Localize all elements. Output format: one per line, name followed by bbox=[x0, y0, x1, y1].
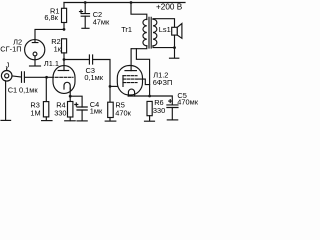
value label 470к bbox=[115, 109, 131, 118]
node C3-R5-grid junction bbox=[109, 85, 112, 88]
value label C5 plus bbox=[169, 100, 172, 103]
value label C2 bbox=[93, 10, 102, 19]
wire R1 bottom lead bbox=[63, 23, 65, 30]
wire R3 bottom lead bbox=[45, 117, 47, 120]
ground R4 bbox=[65, 120, 76, 122]
wire secondary bottom to speaker bbox=[153, 46, 175, 48]
value label СГ-1П bbox=[0, 44, 21, 53]
wire C2 bottom lead bbox=[84, 16, 86, 28]
svg-text:1к: 1к bbox=[54, 45, 62, 54]
value label 330 R4 bbox=[54, 109, 66, 118]
transformer Tr1 primary bbox=[143, 19, 147, 46]
ground Л2 bbox=[30, 65, 41, 67]
value label R1 bbox=[50, 6, 59, 15]
tube Л1.1 envelope bbox=[53, 66, 75, 94]
value label R4 bbox=[56, 100, 65, 109]
ground R3 bbox=[42, 120, 52, 122]
value label 1M bbox=[30, 109, 40, 118]
node rail-C2 junction bbox=[84, 1, 87, 4]
value label 470мк bbox=[177, 98, 198, 107]
tube Л2 anode bbox=[32, 40, 38, 43]
wire Л1.2 anode lead bbox=[130, 49, 132, 71]
node input-R3 junction bbox=[45, 76, 48, 79]
svg-text:Л1.1: Л1.1 bbox=[44, 59, 59, 68]
value label J bbox=[6, 61, 10, 70]
tube Л1.2 grid g1 bbox=[123, 78, 137, 80]
wire ground lead speaker bbox=[174, 48, 176, 58]
value label C3 bbox=[86, 66, 95, 75]
svg-text:1M: 1M bbox=[30, 109, 40, 118]
svg-text:C1: C1 bbox=[8, 85, 17, 94]
wire speaker bottom lead bbox=[174, 35, 176, 48]
wire grid lead Л1.2 bbox=[110, 85, 123, 87]
svg-text:+200 В: +200 В bbox=[156, 3, 183, 12]
value label C4 bbox=[90, 100, 99, 109]
value label 6ФЗП bbox=[153, 78, 173, 87]
wire +200V top rail bbox=[64, 2, 185, 4]
svg-text:1мк: 1мк bbox=[90, 106, 103, 115]
node R2-anode-C3 junction bbox=[63, 58, 66, 61]
wire R4 top lead bbox=[69, 96, 71, 101]
value label 6,8к bbox=[44, 13, 58, 22]
value label C1 bbox=[8, 85, 17, 94]
value label C4 plus bbox=[75, 103, 78, 106]
tube Л1.1 grid bbox=[56, 76, 74, 78]
node R1-R2-Л2 junction bbox=[63, 28, 66, 31]
wire C5 bottom lead bbox=[171, 108, 173, 120]
resistor R3 bbox=[43, 102, 48, 117]
wire R4 bottom lead bbox=[69, 117, 71, 121]
tube Л2 envelope bbox=[25, 40, 45, 60]
transformer Tr1 core bbox=[149, 17, 151, 48]
value label Л1.1 bbox=[44, 59, 59, 68]
wire cathode bus bbox=[128, 96, 172, 105]
capacitor C3 bbox=[89, 55, 92, 64]
wire R1 top lead bbox=[63, 3, 65, 9]
capacitor C5 bbox=[167, 105, 178, 108]
tube Л2 cathode bbox=[33, 52, 37, 56]
wire cathode to C4 bbox=[70, 96, 82, 107]
svg-text:6,8к: 6,8к bbox=[44, 13, 58, 22]
connector J jack bbox=[1, 68, 12, 81]
tube Л1.2 cathode bbox=[128, 89, 134, 96]
svg-text:Ls1: Ls1 bbox=[159, 25, 171, 34]
resistor R1 bbox=[62, 8, 67, 22]
ground C4 bbox=[77, 120, 87, 122]
wire R2 bottom lead bbox=[63, 53, 65, 60]
wire rail to primary top bbox=[131, 3, 147, 20]
resistor R2 bbox=[62, 39, 67, 53]
tube Л1.2 grid g3 bbox=[123, 82, 137, 84]
wire secondary top to speaker bbox=[153, 19, 175, 28]
svg-text:47мк: 47мк bbox=[93, 18, 110, 27]
net label +200 В bbox=[156, 3, 183, 12]
tube Л1.2 envelope bbox=[117, 66, 142, 96]
resistor R5 bbox=[108, 102, 114, 117]
wire R5 bottom lead bbox=[109, 118, 111, 121]
node cathode-R6 junction bbox=[148, 95, 151, 98]
wire R3 top lead bbox=[45, 77, 47, 101]
value label 1к bbox=[54, 45, 62, 54]
wire C4 bottom lead bbox=[81, 110, 83, 121]
transformer Tr1 secondary bbox=[153, 19, 157, 46]
value label 0,1мк C3 bbox=[84, 73, 103, 82]
wire junction to Л2 anode bbox=[35, 29, 64, 39]
svg-text:470к: 470к bbox=[115, 109, 131, 118]
ground R6 bbox=[145, 120, 155, 122]
resistor R4 bbox=[68, 102, 73, 118]
value label Ls1 bbox=[159, 25, 171, 34]
value label Л1.2 bbox=[153, 70, 168, 79]
value label R3 bbox=[30, 100, 39, 109]
ground speaker bbox=[170, 57, 179, 59]
svg-text:СГ-1П: СГ-1П bbox=[0, 44, 21, 53]
wire C1 to grid Л1.1 bbox=[25, 76, 54, 78]
node rail-transformer junction bbox=[130, 1, 133, 4]
ground C2 bbox=[82, 27, 89, 29]
wire Л2 cathode lead bbox=[34, 56, 36, 66]
svg-text:0,1мк: 0,1мк bbox=[19, 85, 38, 94]
wire C3 to grid node bbox=[93, 60, 110, 103]
wire R6 bottom lead bbox=[149, 116, 151, 121]
capacitor C1 bbox=[22, 72, 25, 83]
wire screen link bbox=[136, 49, 149, 96]
value label R6 bbox=[154, 98, 163, 107]
tube Л1.1 cathode bbox=[64, 82, 70, 89]
wire Л1.1 cathode lead bbox=[69, 88, 71, 96]
svg-text:470мк: 470мк bbox=[177, 98, 198, 107]
value label C2 plus bbox=[80, 10, 83, 13]
value label C5 bbox=[177, 91, 186, 100]
ground R5 bbox=[105, 120, 116, 122]
wire anode to C3 bbox=[64, 59, 89, 61]
ground jack bbox=[1, 119, 11, 121]
svg-text:6ФЗП: 6ФЗП bbox=[153, 78, 173, 87]
value label 330 R6 bbox=[153, 106, 165, 115]
wire primary bottom to anode bbox=[131, 46, 146, 49]
resistor R6 bbox=[147, 101, 152, 115]
wire jack ground lead bbox=[5, 81, 7, 120]
svg-text:0,1мк: 0,1мк bbox=[84, 73, 103, 82]
capacitor C2 bbox=[81, 3, 89, 17]
svg-text:330: 330 bbox=[153, 106, 165, 115]
value label Л2 bbox=[13, 37, 22, 46]
value label R2 bbox=[51, 37, 60, 46]
ground C5 bbox=[167, 119, 177, 121]
value label R5 bbox=[115, 100, 124, 109]
node speaker ground junction bbox=[173, 46, 176, 49]
value label Tr1 bbox=[121, 25, 132, 34]
tube Л1.1 anode plate bbox=[58, 70, 68, 72]
value label 1мк bbox=[90, 106, 103, 115]
wire jack to C1 bbox=[12, 76, 21, 77]
capacitor C4 bbox=[77, 107, 87, 110]
tube Л1.2 anode plate bbox=[125, 70, 136, 72]
value label 47мк bbox=[93, 18, 110, 27]
node cathode-R4-C4 junction bbox=[69, 95, 72, 98]
svg-text:330: 330 bbox=[54, 109, 66, 118]
wire Л1.1 anode lead bbox=[63, 60, 65, 71]
value label 0,1мк C1 bbox=[19, 85, 38, 94]
svg-text:Tr1: Tr1 bbox=[121, 25, 132, 34]
tube Л1.2 grid g2 bbox=[123, 75, 137, 77]
wire g3 lead right bbox=[123, 76, 150, 87]
speaker Ls1 bbox=[172, 24, 182, 39]
